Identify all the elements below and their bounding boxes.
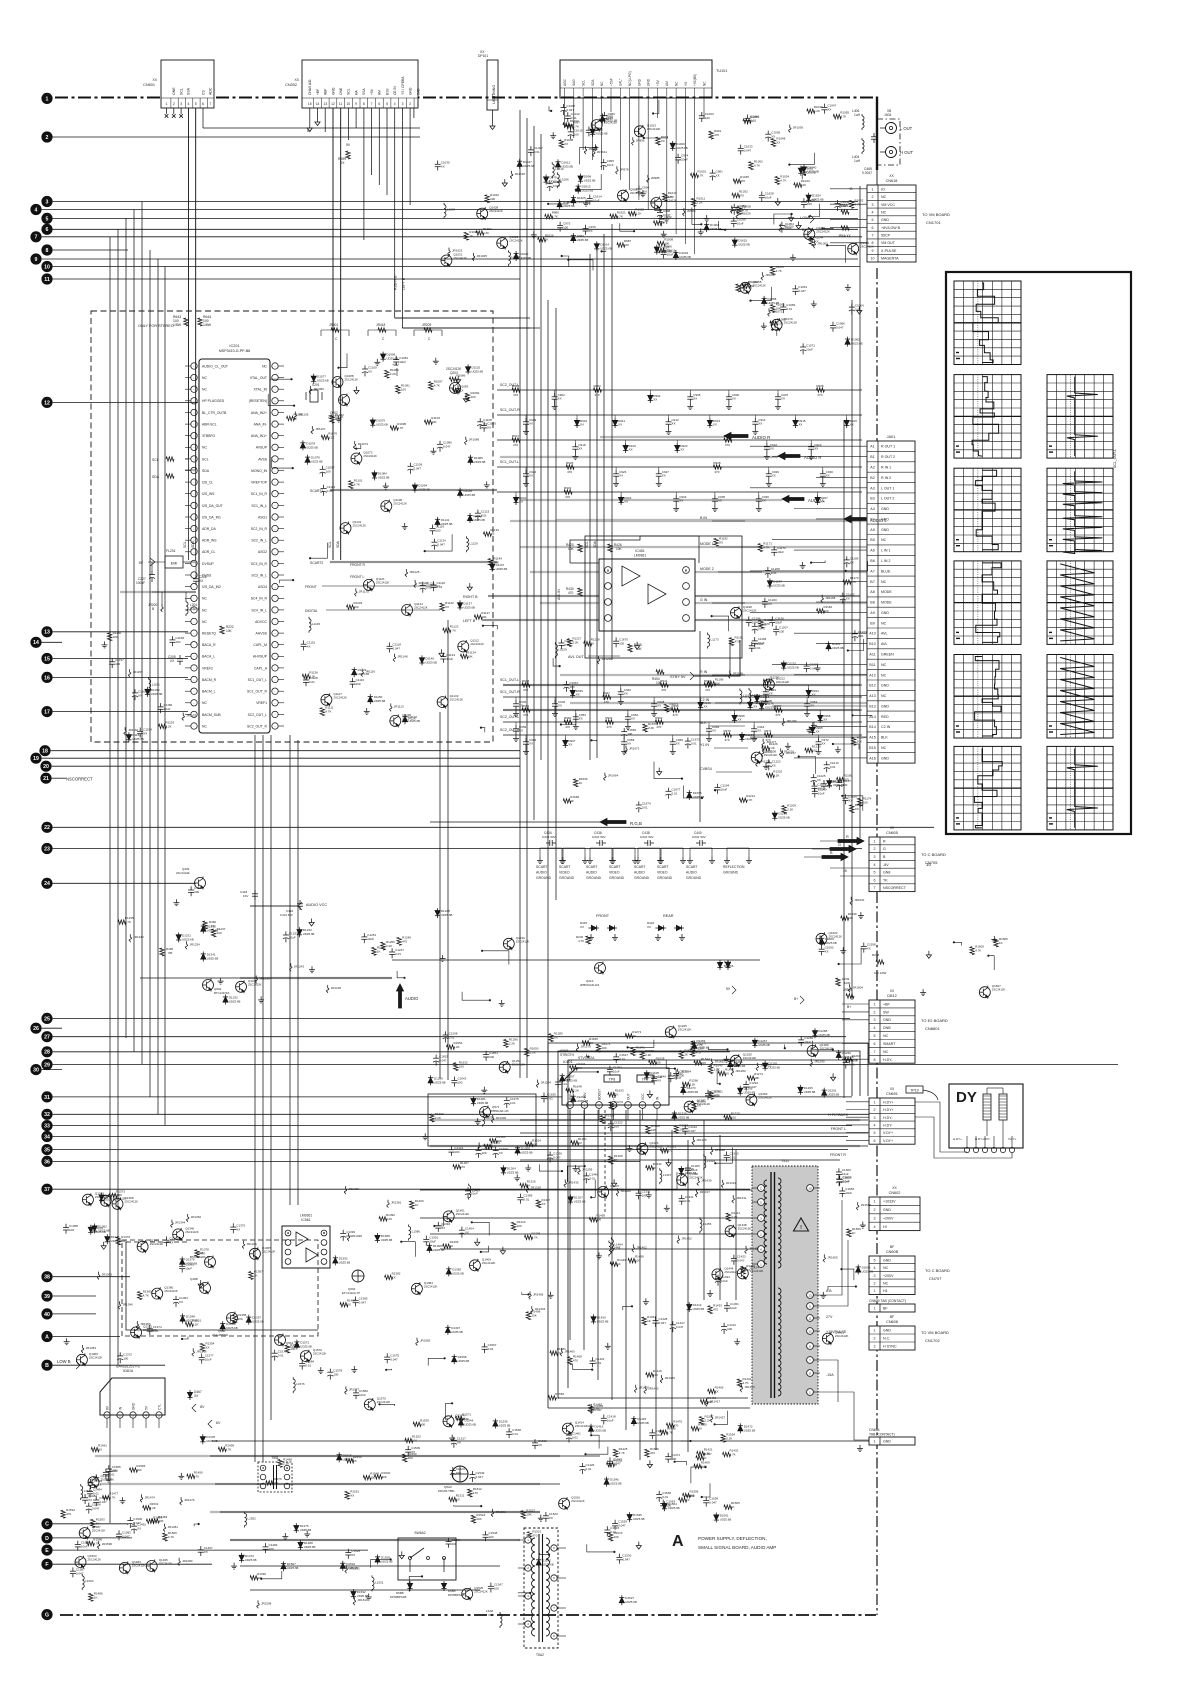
svg-text:470: 470 [739,194,744,198]
diode D904 [649,393,651,395]
resistor R1555 [645,1449,649,1457]
svg-text:SDA: SDA [591,79,595,86]
svg-text:H SYNC: H SYNC [883,1345,897,1349]
svg-text:100: 100 [807,202,812,206]
svg-text:BLK: BLK [700,721,707,725]
svg-text:15: 15 [44,656,50,662]
svg-text:GND: GND [883,1258,891,1262]
svg-text:4.7K: 4.7K [743,1381,749,1385]
svg-text:1K: 1K [415,1203,419,1207]
resistor R1668 [563,799,571,803]
wire vertical bus 36 [625,1110,627,1430]
svg-text:NC: NC [881,195,887,199]
svg-text:XX: XX [576,693,580,697]
svg-text:1K: 1K [377,949,381,953]
svg-text:XX: XX [152,78,157,82]
tuner TU101 pin [684,88,686,98]
svg-text:XX: XX [732,397,736,401]
wire from node 4 [42,209,858,211]
resistor R1553 [403,1454,407,1462]
svg-text:2SC2412K: 2SC2412K [393,502,407,506]
svg-text:CN1701: CN1701 [926,220,941,225]
svg-text:B13: B13 [869,704,875,708]
op-amp IC201 right pin 25 [272,642,278,648]
wire gray signal path 5 [540,602,867,604]
svg-text:XX: XX [564,142,568,146]
capacitor C966 [525,738,527,742]
resistor R925 [566,465,574,469]
svg-text:0.001 50V: 0.001 50V [692,835,706,839]
svg-text:XX: XX [758,422,762,426]
svg-text:0.01: 0.01 [786,307,792,311]
svg-text:XX: XX [554,1036,558,1040]
svg-text:UDZ5.6B: UDZ5.6B [287,1566,299,1570]
svg-text:R932: R932 [564,486,572,490]
svg-text:100: 100 [136,1468,141,1472]
svg-text:XX: XX [445,605,449,609]
svg-text:XX: XX [770,447,774,451]
svg-text:D: D [45,1536,49,1542]
capacitor C954 [627,713,629,717]
diode D1291 [823,1088,825,1090]
svg-text:2.2K: 2.2K [192,1322,198,1326]
wire vertical bus 41 [655,1120,657,1450]
wire net h31 [250,1589,480,1591]
svg-text:CAPL_M: CAPL_M [253,643,267,647]
svg-text:2: 2 [409,102,411,106]
capacitor C1336 [549,1152,551,1156]
wire net h5 [497,439,862,441]
svg-text:4.7K: 4.7K [325,710,331,714]
no-connect mark [173,108,175,114]
inductor L1337 [659,1168,661,1170]
svg-text:470: 470 [513,443,518,447]
capacitor C1110 [352,678,354,682]
svg-text:12: 12 [808,1329,812,1333]
op-amp IC201 right pin 12 [272,491,278,497]
svg-text:UDZ5.6B: UDZ5.6B [828,1093,840,1097]
transistor Q1070 [771,319,782,330]
wire stub [784,1045,786,1049]
resistor R1421 [697,1451,705,1455]
wire front row [322,585,440,587]
svg-text:GND: GND [881,756,889,760]
svg-text:10uF: 10uF [804,1040,811,1044]
capacitor C945 [515,700,517,704]
waveform W6 (left col) [954,746,1021,830]
wire net h7 [497,491,862,493]
resistor R1063 [771,305,775,313]
wire from node 26 [42,1027,62,1029]
ground sym [663,231,665,235]
transformer T5A2 pin 3 [525,1593,531,1599]
ground sym [103,1242,105,1246]
svg-text:UDZ5.6B: UDZ5.6B [563,204,575,208]
ground sym [424,1133,426,1137]
resistor R1554 [721,1434,725,1442]
svg-text:-: - [194,446,195,450]
diode D1445 [633,1416,635,1418]
node 15 [41,653,52,664]
capacitor C1223 [854,630,856,634]
diode D933 [620,495,622,497]
svg-text:ANA_IN1+: ANA_IN1+ [251,434,267,438]
wire from node 19 [42,757,520,759]
svg-text:470: 470 [775,713,780,717]
jumper JR1363 [98,1272,100,1275]
wire stub [751,287,772,301]
resistor R1594 [61,1510,65,1518]
svg-text:L1531: L1531 [375,1580,384,1584]
svg-text:4.7K: 4.7K [667,1430,673,1434]
svg-text:JR1402: JR1402 [349,1187,360,1191]
capacitor C1492 [133,1523,135,1527]
inductor L1019 [508,250,510,252]
wire gray signal path 20 [482,619,860,621]
svg-text:A3: A3 [870,486,874,490]
svg-text:NC: NC [202,388,207,392]
svg-text:YS: YS [684,82,688,86]
svg-text:JR1352: JR1352 [191,1215,202,1219]
diode D1534 [342,1561,344,1563]
svg-text:10K: 10K [651,1128,656,1132]
wire net h18 [520,1132,868,1134]
svg-text:1K: 1K [770,680,774,684]
resistor R1271 [596,1044,600,1052]
capacitor C1530 [618,1554,620,1558]
svg-text:2SC2412K: 2SC2412K [456,1212,470,1216]
svg-text:-: - [194,492,195,496]
capacitor C1361 [181,1263,183,1267]
capacitor C1598 [863,943,865,947]
transistor Q1359 [100,1195,111,1206]
svg-text:XX: XX [441,165,445,169]
svg-text:XX: XX [676,742,680,746]
diode D1259 [729,1059,731,1061]
svg-text:-: - [275,608,276,612]
resistor R1296 [504,1039,508,1047]
capacitor C1393 [342,1230,344,1234]
svg-text:B6: B6 [870,559,874,563]
svg-text:12: 12 [331,102,335,106]
capacitor C1104 [323,485,325,489]
svg-text:SSA: SSA [362,88,366,95]
wire gray signal path 4 [530,571,867,573]
jumper JR1429 [661,1375,663,1378]
capacitor C926 [615,470,617,474]
capacitor C1500 [129,1517,131,1521]
resistor R952 [522,708,530,712]
svg-text:7: 7 [209,102,211,106]
jumper JR1611 [593,149,595,152]
capacitor C1520 [545,1512,547,1516]
svg-text:UDZ5.6B: UDZ5.6B [94,1230,106,1234]
resistor R1182 [817,609,825,613]
resistor R1170 [843,580,851,584]
wire net h16 [140,977,392,979]
wire from node F [53,1563,212,1565]
svg-text:470: 470 [565,725,570,729]
svg-text:10uF: 10uF [289,935,296,939]
svg-text:0.047: 0.047 [443,445,451,449]
op-amp IC451 right pin 6 [683,583,690,590]
svg-text:JR1320: JR1320 [715,1148,726,1152]
svg-text:100: 100 [705,116,710,120]
capacitor C1510 [534,1439,536,1443]
svg-text:JR1163: JR1163 [186,714,196,718]
diode D1213 [756,694,758,696]
resistor R1011 [691,198,695,206]
node 14 [30,637,41,648]
svg-text:UDZ5.6B: UDZ5.6B [566,1078,578,1082]
wire gray signal path 22 [503,709,860,711]
switch SW6A2 body [398,1538,456,1580]
jumper JR1519 [353,1597,355,1600]
wire net h8 [503,684,862,686]
resistor R1049 [807,109,815,113]
svg-text:100: 100 [123,1356,128,1360]
svg-text:100: 100 [517,1224,522,1228]
ground sym [607,1343,609,1347]
svg-text:10uF: 10uF [607,163,614,167]
transformer T551 pin left 3 [260,1483,266,1489]
svg-text:100: 100 [175,640,180,644]
wire stub [988,956,994,970]
svg-text:5: 5 [874,871,876,875]
svg-text:SC1_OUT-L: SC1_OUT-L [500,460,519,464]
svg-text:UDZ5.6B: UDZ5.6B [381,1238,393,1242]
svg-text:4.7K: 4.7K [619,1451,625,1455]
transistor Q1246 [503,938,514,949]
ground sym [575,1165,577,1169]
diode D1542 [538,1557,540,1559]
resistor R455 [628,644,632,652]
svg-text:XX: XX [826,474,830,478]
transistor Q1620 [651,198,662,209]
capacitor C905 [689,393,691,397]
svg-text:2SC2412K: 2SC2412K [489,209,503,213]
svg-text:35: 35 [44,1148,50,1154]
resistor R1556 [679,1498,687,1502]
svg-text:UDZ5.6B: UDZ5.6B [744,1091,756,1095]
resistor R1103 [424,420,432,424]
svg-text:UDZ5.6B: UDZ5.6B [804,1090,816,1094]
svg-text:UDZ5.6B: UDZ5.6B [778,816,790,820]
wire TU101 drop [647,98,649,210]
wire stub [561,713,576,725]
svg-text:CN604: CN604 [869,1428,880,1432]
svg-text:10uF: 10uF [446,657,453,661]
diode D944 [808,688,810,690]
capacitor C1434 [717,1275,719,1279]
svg-text:2.2K: 2.2K [386,944,392,948]
wire stub [620,223,634,231]
svg-text:-: - [194,724,195,728]
wire TU101 drop [694,98,696,254]
op-amp IC201 left pin 13 [191,502,197,508]
svg-text:470: 470 [523,688,528,692]
svg-text:VM OUT: VM OUT [881,241,896,245]
svg-text:JR1294: JR1294 [541,1081,552,1085]
wire stub [712,616,729,631]
svg-text:JR1280: JR1280 [735,1069,746,1073]
wire stub [853,714,872,717]
resistor R1314 [525,1142,533,1146]
transistor Q1485 [88,1477,99,1488]
svg-text:-: - [275,515,276,519]
svg-text:1K: 1K [647,1319,651,1323]
resistor R1328 [600,1116,604,1124]
capacitor C1151 [303,640,305,644]
resistor R426 [608,544,612,552]
svg-text:UDZ5.6B: UDZ5.6B [473,518,485,522]
resistor R1124 [460,654,468,658]
svg-text:JR1168: JR1168 [825,596,835,600]
svg-text:+5SF: +5SF [609,78,613,86]
svg-text:UDZ5.6B: UDZ5.6B [229,1000,241,1004]
resistor R1456 [660,1430,668,1434]
capacitor C1158 [171,636,173,640]
svg-text:AVL IN: AVL IN [557,589,561,600]
svg-text:XX: XX [798,423,802,427]
svg-text:CN608: CN608 [886,1320,898,1324]
svg-text:1: 1 [874,1200,876,1204]
transistor Q1198 [731,607,742,618]
wire stub [261,1571,282,1579]
wire stub [454,1505,482,1506]
svg-text:4: 4 [874,863,876,867]
svg-text:100: 100 [454,1150,459,1154]
ground sym [709,1290,711,1294]
svg-text:-: - [275,550,276,554]
capacitor C1643 [453,1077,455,1081]
resistor R973 [656,137,660,145]
svg-text:UDZ5.6B: UDZ5.6B [464,493,476,497]
capacitor C907 [777,393,779,397]
svg-text:100: 100 [779,630,784,634]
svg-text:L1504: L1504 [85,1579,94,1583]
op-amp IC201 right pin 2 [272,374,278,380]
svg-text:XX: XX [746,1268,750,1272]
transistor Q1058 [740,282,751,293]
tuner TU101 pin grid [560,87,712,89]
svg-text:2SC2412K: 2SC2412K [446,367,462,371]
wire vertical bus 37 [611,1110,613,1400]
wire CN302 drop [409,108,411,205]
svg-text:6: 6 [874,878,876,882]
svg-text:3: 3 [874,1018,876,1022]
diode D1002 [706,222,708,224]
svg-text:GND: GND [883,1208,891,1212]
resistor R222 [220,626,224,634]
wire net h2 [402,327,540,329]
svg-text:100: 100 [401,388,406,392]
capacitor C1586 [88,1503,90,1507]
svg-text:10uF: 10uF [777,550,784,554]
capacitor C1201 [751,642,753,646]
resistor R1149 [488,559,492,567]
jumper JR993 [585,146,587,149]
svg-text:GND: GND [637,78,641,86]
op-amp IC201 right pin 10 [272,467,278,473]
jumper JR1053 [813,240,815,243]
filter FL201 [165,556,183,568]
capacitor C1114 [433,539,435,543]
transistor Q571 [480,1107,491,1118]
capacitor C1284 [557,1078,559,1082]
op-amp IC201 left pin 17 [191,549,197,555]
capacitor C1039 [733,217,735,221]
diode D1564 [664,1501,666,1503]
wire net h1 [395,317,530,319]
svg-text:YS / CPBRA: YS / CPBRA [401,76,405,95]
jumper JR1317 [696,1189,698,1192]
svg-text:LEFT B: LEFT B [402,277,406,290]
svg-text:XX: XX [629,448,633,452]
wire gray signal path 19 [488,595,860,597]
jumper JR1224 [756,759,758,762]
wire stub [518,1592,530,1594]
svg-text:UDZ5.6B: UDZ5.6B [387,357,399,361]
capacitor C1471 [667,1453,669,1457]
node 33 [41,1120,52,1131]
jumper JR1341 [243,1241,245,1244]
capacitor C914 [754,418,756,422]
wire stub [681,1440,690,1443]
svg-text:JR1155: JR1155 [133,670,143,674]
deflection yoke pin [973,1147,978,1152]
transistor Q1384 [411,1283,422,1294]
capacitor C1614 [589,195,591,199]
resistor R1316 [520,1183,528,1187]
resistor R1323 [646,1126,650,1134]
svg-text:UDZ5.6B: UDZ5.6B [206,1439,218,1443]
op-amp IC561 left pin 4 [285,1259,291,1265]
transistor Q1013 [634,126,645,137]
diode D1005 [559,199,561,201]
svg-text:4.7K: 4.7K [532,1235,538,1239]
svg-text:JR1234: JR1234 [190,942,201,946]
capacitor C1677 [668,788,670,792]
wire CN302 drop [386,108,388,195]
resistor R1596 [86,1541,94,1545]
inductor L1455 [699,1217,701,1219]
jumper JR1189 [782,718,784,721]
wire stub [591,1180,595,1198]
svg-text:21: 21 [43,776,49,782]
diode D1004 [675,250,677,252]
wire CN302 drop [394,108,396,318]
resistor R1010 [563,123,571,127]
svg-text:470: 470 [567,470,572,474]
svg-text:B9: B9 [870,621,874,625]
wire gray signal path 17 [330,489,497,491]
wire from node 24 [53,882,196,884]
ground sym [504,179,506,183]
svg-text:6V: 6V [216,1421,221,1425]
capacitor C1389 [519,1194,521,1198]
svg-text:AUDIO: AUDIO [405,996,419,1001]
svg-text:I2S_DA_IN2: I2S_DA_IN2 [202,585,221,589]
transistor Q1525 [462,1588,473,1599]
capacitor C1616 [663,248,665,252]
svg-text:8: 8 [874,1058,876,1062]
svg-text:JR978: JR978 [620,167,629,171]
svg-text:10K: 10K [526,1513,531,1517]
svg-text:B12: B12 [869,684,875,688]
svg-text:AHVSUP: AHVSUP [253,655,268,659]
svg-text:13: 13 [44,630,50,636]
